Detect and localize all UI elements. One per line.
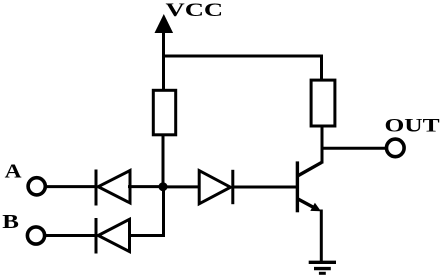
- diode D3: [199, 170, 233, 204]
- ground: [309, 262, 336, 273]
- wire D1 to node: [128, 185, 164, 188]
- resistor R2: [311, 80, 335, 126]
- input terminal B: [27, 227, 44, 244]
- input terminal A: [28, 178, 45, 195]
- wire emitter down to ground: [320, 210, 323, 263]
- svg-text:OUT: OUT: [385, 115, 440, 136]
- node junction: [159, 182, 168, 191]
- diode D1: [96, 170, 130, 206]
- wire input A to D1: [46, 185, 98, 188]
- wire R2 bottom to collector: [321, 127, 324, 164]
- resistor R1: [153, 90, 175, 135]
- wire R1 bottom to node: [162, 136, 165, 188]
- wire node to D3: [163, 185, 200, 188]
- wire VCC stem to R1 top: [162, 56, 165, 89]
- wire to OUT terminal: [322, 147, 385, 150]
- svg-text:VCC: VCC: [166, 0, 224, 20]
- transistor Q1: [297, 161, 321, 212]
- power symbol VCC arrow: [155, 14, 174, 58]
- wire D2 to B branch corner: [128, 234, 165, 237]
- wire input B to D2: [45, 234, 97, 237]
- diode D2: [96, 218, 130, 254]
- wire B branch up to node: [162, 186, 165, 237]
- svg-text:B: B: [2, 211, 19, 233]
- output terminal OUT: [387, 139, 405, 157]
- svg-text:A: A: [5, 160, 22, 182]
- wire right rail down to R2: [320, 55, 323, 81]
- wire D3 to base: [233, 186, 297, 189]
- wire top branch horizontal: [162, 55, 323, 58]
